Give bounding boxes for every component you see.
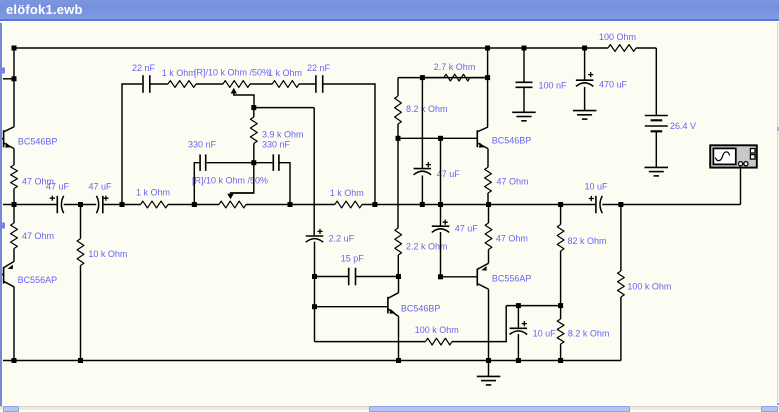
junction mid rail / 10k bbox=[78, 202, 83, 207]
wire Q3 emitter to rail bbox=[487, 193, 489, 205]
wire Q3 base bbox=[398, 137, 477, 139]
svg-text:26.4 V: 26.4 V bbox=[670, 121, 696, 131]
junction bottom rail / Q2 bbox=[12, 358, 17, 363]
svg-text:470 uF: 470 uF bbox=[599, 79, 628, 89]
junction mid rail / Q1 branch bbox=[12, 202, 17, 207]
resistor 8.2 k Ohm (bottom) bbox=[557, 306, 609, 361]
junction 8.2k-row / Q3 collector bbox=[485, 75, 490, 80]
wire pot2 wiper bbox=[231, 163, 254, 193]
svg-text:47 Ohm: 47 Ohm bbox=[22, 231, 54, 241]
capacitor 47 uF (Q3 bypass) bbox=[414, 162, 461, 179]
junction mid rail / 330nF left bbox=[192, 202, 197, 207]
junction bottom rail / Q4 emitter bbox=[396, 358, 401, 363]
svg-text:47 uF: 47 uF bbox=[455, 223, 479, 233]
transistor Q2 BC556AP bbox=[1, 261, 57, 286]
wire fb seg2 bbox=[196, 83, 223, 85]
wire 100k feedback link bbox=[315, 307, 426, 342]
wire mid rail to scope bbox=[602, 204, 740, 206]
wire 47uF3 riser bbox=[421, 78, 423, 168]
wire 47uF3 to mid rail bbox=[421, 176, 423, 205]
svg-text:BC556AP: BC556AP bbox=[18, 275, 58, 285]
junction 8.2k2 top bbox=[558, 303, 563, 308]
wire 15pF right leg bbox=[356, 276, 399, 278]
potentiometer [R]/10k 50% (feedback) bbox=[194, 68, 270, 106]
resistor 47 Ohm (Q2 emitter) bbox=[11, 205, 54, 262]
junction 10uF2 top bbox=[516, 303, 521, 308]
capacitor 22 nF (feedback right) bbox=[307, 63, 331, 93]
battery 26.4 V bbox=[645, 116, 696, 132]
window left border bbox=[0, 23, 2, 406]
resistor 1 k Ohm (mid right) bbox=[330, 188, 364, 208]
resistor 10 k Ohm bbox=[77, 205, 127, 361]
resistor 8.2 k Ohm (Q3 bias) bbox=[395, 78, 448, 139]
wire Q4 emitter drop bbox=[398, 316, 400, 360]
junction bottom rail / 8.2k2 bbox=[558, 358, 563, 363]
wire top supply rail bbox=[14, 47, 585, 49]
junction mid rail / 22nF right drop bbox=[372, 202, 377, 207]
wire mid rail seg2 bbox=[104, 204, 141, 206]
svg-text:15 pF: 15 pF bbox=[341, 254, 365, 264]
wire fb seg4 bbox=[299, 83, 316, 85]
junction Q3 base / 47uF4 branch bbox=[438, 136, 443, 141]
wire Q5 collector drop bbox=[488, 289, 490, 360]
wire mid rail seg3 bbox=[168, 204, 219, 206]
wire 47uF4 to base node bbox=[440, 232, 442, 277]
resistor 100 Ohm bbox=[585, 32, 657, 51]
resistor 2.7 k Ohm bbox=[422, 62, 487, 81]
svg-text:[R]/10 k Ohm /50%: [R]/10 k Ohm /50% bbox=[194, 68, 270, 78]
wire between 47uF caps bbox=[64, 204, 96, 206]
wire 330nF right leg bbox=[254, 162, 273, 164]
svg-text:1 k Ohm: 1 k Ohm bbox=[268, 68, 302, 78]
wire Q3 collector riser bbox=[487, 48, 489, 127]
junction mid rail / 82k bbox=[558, 202, 563, 207]
svg-text:22 nF: 22 nF bbox=[132, 63, 156, 73]
wire wiper node to 2.2uF drop bbox=[254, 108, 314, 236]
svg-text:BC546BP: BC546BP bbox=[18, 136, 58, 146]
junction left stub bbox=[12, 76, 17, 81]
junction bottom rail / 10k bbox=[78, 358, 83, 363]
svg-text:2.7 k Ohm: 2.7 k Ohm bbox=[434, 62, 476, 72]
junction mid rail / 330nF right bbox=[288, 202, 293, 207]
transistor Q4 BC546BP bbox=[388, 277, 441, 317]
resistor 47 Ohm (Q3 emitter) bbox=[485, 167, 529, 193]
potentiometer [R]/10k 50% (mid) bbox=[192, 175, 268, 208]
ground (bottom rail) bbox=[477, 361, 501, 385]
wire battery drop bbox=[655, 48, 657, 115]
capacitor 2.2 uF bbox=[306, 229, 355, 244]
vertical scrollbar thumb sliver bbox=[777, 127, 779, 131]
transistor Q1 BC546BP bbox=[1, 127, 57, 149]
wire 330nF left leg bbox=[207, 162, 254, 164]
wire scope drop bbox=[740, 167, 742, 204]
svg-text:1 k Ohm: 1 k Ohm bbox=[330, 188, 364, 198]
ground (470uF) bbox=[573, 111, 597, 120]
capacitor 22 nF (feedback left) bbox=[132, 63, 156, 93]
wire 8.2k top link bbox=[398, 77, 488, 79]
wire mid rail left bbox=[3, 204, 57, 206]
right scrollbar edge line bbox=[777, 23, 778, 405]
wire 2.2uF to node bbox=[314, 242, 316, 277]
svg-text:330 nF: 330 nF bbox=[188, 139, 217, 149]
resistor 1 k Ohm (feedback right) bbox=[268, 68, 302, 87]
horizontal scrollbar thumb bbox=[369, 406, 630, 412]
transistor Q3 BC546BP bbox=[477, 127, 531, 149]
svg-text:100 k Ohm: 100 k Ohm bbox=[627, 281, 671, 291]
capacitor 47 uF (left coupling 1) bbox=[46, 181, 70, 213]
svg-text:2.2 uF: 2.2 uF bbox=[329, 234, 355, 244]
capacitor 47 uF (left coupling 2) bbox=[89, 181, 113, 213]
svg-text:100 k Ohm: 100 k Ohm bbox=[415, 325, 459, 335]
clipped label fragment (left top) bbox=[2, 68, 5, 74]
junction 15pF left bbox=[312, 274, 317, 279]
svg-text:47 uF: 47 uF bbox=[46, 181, 70, 191]
wire Q1 collector riser bbox=[13, 48, 15, 127]
capacitor 10 uF (output coupling) bbox=[585, 181, 609, 213]
junction top rail / Q1 collector bbox=[12, 46, 17, 51]
wire Q4 base link bbox=[315, 277, 388, 307]
junction pot1 wiper node bbox=[251, 105, 256, 110]
wire mid rail seg4 bbox=[246, 204, 335, 206]
wire bottom rail bbox=[3, 360, 621, 362]
junction bottom rail / ground bbox=[486, 358, 491, 363]
svg-text:3.9 k Ohm: 3.9 k Ohm bbox=[262, 130, 304, 140]
wire feedback left riser bbox=[122, 84, 142, 205]
svg-text:47 Ohm: 47 Ohm bbox=[496, 233, 528, 243]
junction mid rail / Q3 emitter bbox=[486, 202, 491, 207]
resistor 100 k Ohm (feedback) bbox=[415, 325, 459, 345]
horizontal scrollbar track bbox=[0, 406, 779, 411]
wire fb right drop bbox=[323, 84, 375, 205]
resistor 2.2 k Ohm bbox=[395, 138, 448, 276]
junction 8.2k-row / 47uF3 bbox=[420, 75, 425, 80]
junction mid rail / C47uF-3 bbox=[420, 202, 425, 207]
oscilloscope icon bbox=[710, 145, 757, 167]
svg-text:100 Ohm: 100 Ohm bbox=[599, 32, 636, 42]
capacitor 330 nF (left) bbox=[188, 139, 217, 171]
svg-text:10 k Ohm: 10 k Ohm bbox=[88, 249, 127, 259]
svg-text:1 k Ohm: 1 k Ohm bbox=[136, 187, 170, 197]
capacitor 330 nF (right) bbox=[262, 139, 291, 171]
wire Q3 emitter lead bbox=[487, 149, 489, 168]
svg-text:1 k Ohm: 1 k Ohm bbox=[162, 68, 196, 78]
wire 15pF left leg bbox=[315, 276, 349, 278]
wire left input stub bbox=[3, 78, 14, 80]
right scrollbar strip bbox=[778, 23, 779, 405]
junction mid rail / 100k output bbox=[618, 202, 623, 207]
vertical scrollbar bottom dash bbox=[777, 403, 779, 406]
capacitor 15 pF bbox=[341, 254, 365, 286]
resistor 3.9 k Ohm bbox=[250, 108, 303, 163]
wire Q2 collector drop bbox=[13, 287, 15, 361]
horizontal scrollbar left button bbox=[3, 406, 19, 412]
horizontal scrollbar right button bbox=[761, 406, 778, 412]
resistor 82 k Ohm bbox=[557, 205, 606, 306]
resistor 1 k Ohm (feedback left) bbox=[162, 68, 196, 87]
resistor 47 Ohm (Q1 emitter) bbox=[11, 165, 54, 189]
wire fb seg3 bbox=[250, 83, 272, 85]
wire 330nF left drop bbox=[194, 163, 200, 205]
svg-text:[R]/10 k Ohm /50%: [R]/10 k Ohm /50% bbox=[192, 175, 268, 185]
junction bottom rail / 10uF2 bbox=[516, 358, 521, 363]
svg-text:10 uF: 10 uF bbox=[585, 181, 609, 191]
wire mid rail seg5 bbox=[362, 204, 595, 206]
wire 47uF4 riser bbox=[440, 138, 442, 226]
wire 100k to 10uF node bbox=[452, 306, 561, 342]
svg-text:47 Ohm: 47 Ohm bbox=[497, 176, 529, 186]
wire Q5 base bbox=[441, 276, 478, 278]
ground (battery) bbox=[645, 167, 669, 176]
junction Q5 base node bbox=[438, 274, 443, 279]
svg-text:82 k Ohm: 82 k Ohm bbox=[568, 236, 607, 246]
wire Q1 emitter lead bbox=[13, 149, 15, 165]
svg-text:330 nF: 330 nF bbox=[262, 139, 291, 149]
junction mid rail / feedback bbox=[120, 202, 125, 207]
svg-text:2.2 k Ohm: 2.2 k Ohm bbox=[406, 242, 448, 252]
svg-text:47 uF: 47 uF bbox=[89, 181, 113, 191]
svg-text:BC546BP: BC546BP bbox=[492, 135, 532, 145]
svg-text:8.2 k Ohm: 8.2 k Ohm bbox=[568, 328, 610, 338]
wire 330nF right drop bbox=[279, 163, 290, 205]
window title bar bbox=[0, 0, 779, 21]
svg-text:8.2 k Ohm: 8.2 k Ohm bbox=[406, 104, 448, 114]
junction 330nF node bbox=[251, 160, 256, 165]
capacitor 10 uF (bootstrap) bbox=[510, 306, 557, 361]
svg-text:100 nF: 100 nF bbox=[539, 80, 568, 90]
junction mid rail / C47uF-4 branch bbox=[438, 202, 443, 207]
junction top rail / Q3 collector bbox=[485, 46, 490, 51]
svg-text:22 nF: 22 nF bbox=[307, 63, 331, 73]
resistor 100 k Ohm (output) bbox=[618, 205, 672, 361]
svg-text:BC556AP: BC556AP bbox=[492, 273, 532, 283]
junction 15pF right / Q4 collector bbox=[396, 274, 401, 279]
transistor Q5 BC556AP bbox=[477, 263, 531, 289]
svg-text:10 uF: 10 uF bbox=[533, 328, 557, 338]
capacitor 47 uF (Q5 base) bbox=[432, 220, 478, 234]
clipped label fragment (left mid) bbox=[2, 223, 5, 229]
junction top rail / C-470uF bbox=[582, 46, 587, 51]
capacitor 100 nF bbox=[516, 48, 568, 112]
svg-text:BC546BP: BC546BP bbox=[401, 303, 441, 313]
junction Q4 base node bbox=[312, 304, 317, 309]
wire fb seg1 bbox=[150, 83, 168, 85]
ground (100nF) bbox=[512, 112, 536, 121]
resistor 1 k Ohm (mid left) bbox=[136, 187, 170, 208]
junction top rail / C-100nF bbox=[522, 46, 527, 51]
junction Q3 base / 8.2k bbox=[396, 136, 401, 141]
capacitor 470 uF bbox=[576, 48, 628, 110]
wire 47 Ohm to mid rail bbox=[13, 189, 15, 205]
wire battery to ground bbox=[655, 131, 657, 167]
resistor 47 Ohm (Q5 emitter) bbox=[485, 205, 528, 264]
